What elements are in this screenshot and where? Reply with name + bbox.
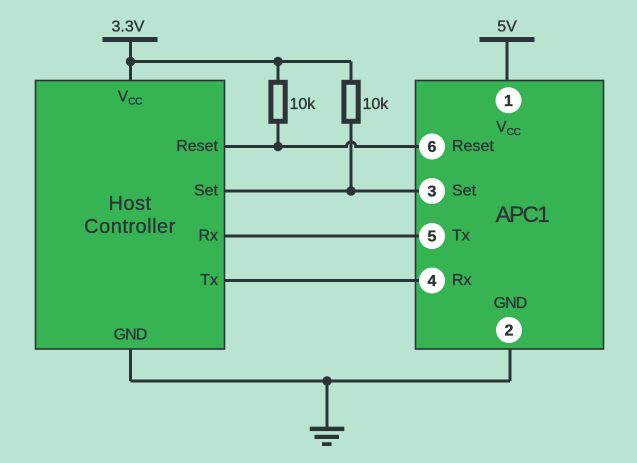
node: junction at R1 top — [273, 57, 282, 66]
wire: R2 bottom lead down to Set net — [350, 121, 353, 191]
pin 1 circle — [496, 87, 522, 113]
svg-text:Rx: Rx — [452, 272, 472, 289]
pin 3 circle — [419, 178, 445, 204]
IC box: APC1 — [416, 81, 604, 350]
wire: R1 top lead — [277, 62, 280, 83]
svg-text:3: 3 — [428, 184, 437, 201]
svg-text:Set: Set — [194, 183, 219, 200]
ground — [310, 427, 345, 446]
pin 5 circle — [419, 223, 445, 249]
power rail 5V bar — [480, 37, 535, 42]
pin 6 circle — [419, 134, 445, 160]
node: ground junction — [322, 376, 331, 385]
node: 3.3V junction — [126, 57, 135, 66]
svg-text:4: 4 — [428, 273, 437, 290]
pin 4 circle — [419, 268, 445, 294]
node: junction R1 / Reset — [273, 142, 282, 151]
wire: 5V bar down to APC1 pin 1 — [506, 40, 509, 81]
resistor R2 — [344, 82, 358, 121]
wire: Set net — [225, 190, 422, 193]
wire: 3.3V bar down to Host Vcc — [129, 40, 132, 81]
wire: junction to ground symbol — [326, 381, 329, 428]
power rail 3.3V bar — [103, 37, 158, 42]
svg-text:Controller: Controller — [84, 216, 176, 238]
wire: Rx-Tx net — [225, 235, 422, 238]
svg-text:1: 1 — [504, 93, 513, 110]
svg-text:6: 6 — [428, 139, 437, 156]
svg-text:5V: 5V — [497, 18, 517, 35]
svg-text:Set: Set — [452, 183, 477, 200]
svg-text:Tx: Tx — [452, 228, 470, 245]
svg-text:10k: 10k — [363, 96, 390, 113]
svg-text:Tx: Tx — [200, 272, 218, 289]
wire: APC1 GND down — [509, 349, 512, 381]
pin 2 circle — [496, 317, 522, 343]
wire: R2 top lead — [350, 62, 353, 83]
svg-text:GND: GND — [494, 295, 527, 312]
svg-text:Rx: Rx — [198, 228, 218, 245]
IC box: Host Controller — [36, 81, 225, 350]
svg-text:Reset: Reset — [452, 138, 494, 155]
wire: Reset net (with hop over R2 lead) — [225, 142, 422, 147]
svg-text:Reset: Reset — [176, 138, 218, 155]
svg-text:5: 5 — [428, 229, 437, 246]
node: junction R2 / Set — [346, 186, 355, 195]
svg-text:APC1: APC1 — [496, 202, 550, 227]
wire: R1 bottom lead — [277, 121, 280, 147]
wire: Host GND down — [129, 349, 132, 381]
svg-text:Host: Host — [108, 193, 151, 215]
wire: bottom ground rail — [131, 380, 511, 383]
wire: top rail from junction to R2 — [131, 60, 352, 63]
svg-text:2: 2 — [505, 323, 514, 340]
svg-text:GND: GND — [114, 327, 147, 344]
svg-text:10k: 10k — [290, 96, 317, 113]
resistor R1 — [271, 82, 285, 121]
wire: Tx-Rx net — [225, 279, 422, 282]
svg-text:3.3V: 3.3V — [112, 18, 145, 35]
